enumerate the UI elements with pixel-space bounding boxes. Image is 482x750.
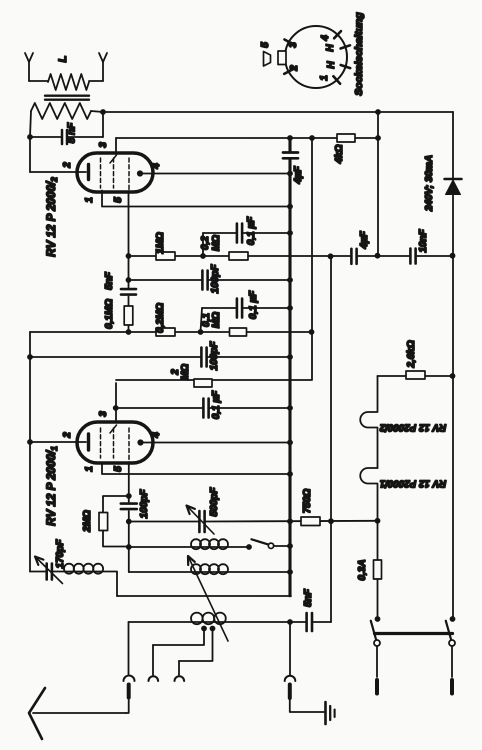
capacitor C 10nF	[410, 249, 415, 264]
mains pin right	[451, 646, 453, 694]
label 0,1 uF b	[248, 290, 259, 319]
label 100pF cath	[139, 489, 150, 519]
node y522 x331	[328, 518, 334, 524]
tube V2 grid (dashed)	[100, 428, 102, 458]
switch S1 contact	[246, 544, 252, 550]
wire terminal-left to primary	[29, 80, 48, 82]
tube V1 grid 3 (dashed)	[128, 158, 130, 191]
node x30 y357	[27, 354, 33, 360]
node lineA x128	[126, 253, 132, 259]
svg-text:RV 12 P 2000/1: RV 12 P 2000/1	[45, 446, 59, 526]
tuning arrow (coils)	[188, 556, 228, 641]
svg-text:Sockelschaltung: Sockelschaltung	[353, 12, 365, 96]
wire V2 pin1 cathode line	[102, 463, 290, 475]
wire bus corner y596	[117, 595, 291, 597]
svg-text:2: 2	[289, 65, 300, 72]
wire grid lead tube1 (node to pin2)	[30, 137, 86, 172]
node y138 x312	[309, 135, 315, 141]
wire grid line B y332	[30, 331, 312, 333]
label 500pF	[209, 487, 220, 517]
wire S1 to bus	[274, 545, 290, 547]
wire grid line A y256	[129, 255, 453, 257]
capacitor C 5nF grid-leak	[121, 289, 136, 295]
svg-text:170pF: 170pF	[55, 539, 66, 569]
mains pin left	[376, 646, 378, 694]
svg-text:RV 12 P 2000/2: RV 12 P 2000/2	[45, 177, 59, 257]
label tube V2 RV 12 P 2000/1	[45, 446, 59, 526]
wire v x378 top	[377, 112, 379, 256]
coil L1 (antenna tuning)	[52, 564, 117, 574]
svg-text:5nF: 5nF	[104, 271, 115, 290]
label pin 2 (V1)	[62, 162, 73, 169]
node 100pF-b bus	[287, 354, 293, 360]
node y622 bus	[287, 619, 293, 625]
label tube V1 RV 12 P 2000/2	[45, 177, 59, 257]
plug P3 socket	[175, 661, 185, 681]
resistor R 2M grid2	[194, 379, 212, 387]
node anode V1 bus	[287, 171, 293, 177]
node pin5 y547	[126, 544, 132, 550]
svg-text:RV 12 P2000/1: RV 12 P2000/1	[380, 478, 446, 489]
label heater 2	[379, 422, 446, 433]
svg-text:L: L	[57, 55, 69, 62]
label pin 4 (V1)	[151, 163, 162, 170]
label 2 MOhm grid2	[170, 364, 191, 380]
svg-text:5: 5	[113, 197, 124, 203]
heater V1 (RV12 P2000/2)	[360, 376, 377, 468]
svg-text:1MΩ: 1MΩ	[155, 232, 166, 254]
label socket 1	[319, 75, 330, 81]
resistor R 0.1M c	[230, 328, 247, 336]
label 170pF	[55, 539, 66, 569]
wire line y522	[129, 520, 378, 523]
switch S2a contact	[375, 616, 381, 622]
socket diagram circle	[285, 26, 347, 88]
svg-text:3: 3	[288, 42, 299, 48]
wire terminal-right to primary	[89, 80, 103, 82]
svg-text:0,1 µF: 0,1 µF	[211, 390, 222, 419]
wire HT rail x453	[452, 112, 454, 619]
tube V1 anode dot	[137, 170, 143, 176]
label 1M	[155, 232, 166, 254]
wire anode V2 to bus	[144, 442, 291, 444]
wire v x331	[330, 256, 332, 622]
label 240V 30mA	[424, 155, 435, 212]
wire secondary right lead	[91, 111, 103, 112]
antenna symbol	[29, 688, 126, 739]
coil L4 (aerial taps)	[129, 613, 306, 625]
wire x30 to 170pF	[30, 571, 45, 573]
wire HT top line y112	[103, 111, 453, 113]
bus wire x290 (chassis)	[288, 138, 291, 596]
capacitor C 100pF cath	[121, 504, 137, 510]
node 0.1uF-a bus	[287, 230, 293, 236]
switch S1 pivot	[268, 543, 273, 548]
socket pin5 speaker symbol	[264, 52, 271, 67]
node L4 tap2	[210, 626, 216, 632]
wire v x103 (secondary to 5nF)	[102, 112, 104, 137]
label pin 3 (V1)	[98, 142, 109, 148]
node lineB x312	[309, 329, 315, 335]
diode rectifier 240V 30mA	[445, 179, 462, 195]
label socket H upper	[325, 44, 336, 52]
node pin5 y496	[126, 493, 132, 499]
label pin 1 (V1)	[84, 197, 95, 203]
node L3 bus	[287, 569, 293, 575]
svg-text:1: 1	[319, 75, 330, 81]
svg-text:10nF: 10nF	[418, 228, 429, 252]
wire 2M leg	[103, 496, 129, 513]
resistor R 0.1M vert	[124, 306, 133, 325]
label 10nF	[418, 228, 429, 252]
svg-text:5 nF: 5 nF	[67, 122, 78, 143]
resistor R 2.6k	[406, 371, 425, 379]
label 2,6k	[406, 340, 417, 368]
tube V1 grid (dashed)	[100, 158, 102, 188]
svg-text:0,1 µF: 0,1 µF	[248, 290, 259, 319]
node lineB x200	[198, 329, 204, 335]
node lineA x452	[450, 253, 456, 259]
svg-text:H: H	[325, 44, 336, 52]
label 100pF a	[210, 264, 221, 294]
coil L2 (feedback)	[129, 539, 249, 549]
svg-text:100pF: 100pF	[209, 341, 220, 371]
label 0,3A	[357, 559, 368, 580]
tube V2 grid 3 (dashed)	[128, 428, 130, 462]
label 0,1 uF c	[211, 390, 222, 419]
svg-text:2: 2	[62, 432, 73, 439]
svg-text:500pF: 500pF	[209, 487, 220, 517]
switch S1 lever	[252, 539, 270, 545]
label 4uF b	[359, 230, 370, 249]
svg-text:100pF: 100pF	[139, 489, 150, 519]
node lineB x128	[126, 329, 132, 335]
svg-text:2,6kΩ: 2,6kΩ	[406, 340, 417, 368]
label 0,1 MOhm c	[201, 312, 222, 328]
svg-text:0,2: 0,2	[200, 236, 211, 250]
label 0,1M vert	[104, 299, 115, 329]
node y522 x377	[375, 518, 381, 524]
capacitor C 100pF a	[129, 271, 291, 290]
wire grid lead tube2	[30, 441, 86, 443]
tube V1 grid 2 (dashed)	[110, 155, 117, 188]
label L (antenna coil)	[57, 55, 69, 62]
label pin 1 (V2)	[84, 466, 95, 472]
label socket 3	[288, 42, 299, 48]
transformer primary winding	[48, 74, 89, 90]
capacitor C 100pF b	[30, 348, 290, 367]
tube V2 anode dot	[137, 439, 143, 445]
wire fuse to switch	[377, 579, 379, 619]
svg-text:240V; 30mA: 240V; 30mA	[424, 155, 435, 212]
label pin 4 (V2)	[151, 432, 162, 439]
heater V2 (RV12 P2000/1)	[360, 468, 377, 521]
wire V2 pin5 down	[128, 462, 130, 547]
svg-text:0,1MΩ: 0,1MΩ	[104, 299, 115, 329]
wire screen line y138	[116, 137, 378, 139]
node L4 tap1	[201, 626, 207, 632]
wire anode V1 to bus	[143, 173, 290, 175]
node 100pF-a bus	[287, 277, 293, 283]
capacitor C 4uF b	[351, 249, 356, 264]
capacitor C 0.1uF b	[202, 299, 290, 318]
wire riser x202 (lineB to 0.1uF)	[201, 308, 203, 332]
label pin 3 (V2)	[98, 411, 109, 417]
label pin 5 (V1)	[113, 197, 124, 203]
node anode V2 bus	[287, 440, 293, 446]
capacitor C 5nF out	[307, 613, 331, 631]
label socket 4	[320, 35, 331, 42]
wire V1 pin3 riser	[115, 138, 117, 154]
ground symbol	[326, 702, 335, 724]
label Sockelschaltung	[353, 12, 365, 96]
svg-text:H: H	[326, 61, 337, 69]
node S1 bus	[287, 543, 293, 549]
resistor R 0.2M a	[229, 252, 248, 260]
wire heater to fuse	[377, 521, 379, 560]
plug P2 socket	[149, 645, 159, 681]
label 2M cath	[82, 510, 93, 533]
switch S2b lever	[446, 621, 451, 640]
wire secondary left lead	[30, 111, 31, 137]
node pin1 V1 bus	[287, 204, 293, 210]
svg-text:4µF: 4µF	[359, 230, 370, 249]
tube V2 cathode bar	[87, 434, 90, 450]
label socket 2	[289, 65, 300, 72]
label socket 5	[260, 42, 271, 48]
resistor R 4k	[337, 134, 355, 142]
wire V1 pin5 down	[128, 191, 130, 332]
node y138 bus	[287, 135, 293, 141]
wire V2 pin3 riser	[115, 383, 117, 422]
coil L3 (feedback b)	[129, 564, 290, 574]
node y522 bus	[287, 518, 293, 524]
switch S2a lever	[371, 621, 376, 640]
label 5nF out	[303, 588, 314, 607]
plug P1 (antenna socket)	[124, 622, 135, 713]
node x30 y442	[0, 0, 1, 1]
svg-text:100pF: 100pF	[210, 264, 221, 294]
svg-text:5: 5	[260, 42, 271, 48]
svg-text:750Ω: 750Ω	[302, 489, 313, 514]
antenna terminal right	[99, 53, 107, 81]
tube V2 RV12P2000 envelope	[77, 422, 153, 463]
plug P4 (earth)	[285, 622, 324, 712]
antenna terminal left	[25, 53, 33, 81]
svg-text:MΩ: MΩ	[180, 364, 191, 380]
resistor R 1M	[156, 252, 175, 260]
svg-text:MΩ: MΩ	[211, 312, 222, 328]
node y138 x378	[375, 135, 381, 141]
transformer core	[45, 96, 89, 100]
svg-text:4: 4	[320, 35, 331, 42]
svg-text:5: 5	[113, 466, 124, 472]
transformer secondary winding	[31, 103, 91, 119]
svg-text:4: 4	[151, 163, 162, 170]
svg-text:4kΩ: 4kΩ	[334, 144, 345, 164]
capacitor C 500pF variable	[187, 506, 215, 535]
svg-text:1: 1	[84, 466, 95, 472]
node 0.1uF-b bus	[287, 305, 293, 311]
node pin5 y521	[126, 519, 132, 525]
label 0,1 uF a	[246, 216, 257, 245]
capacitor C 4uF (bus)	[283, 153, 298, 159]
resistor R 0.2M b	[156, 328, 175, 336]
socket key notch	[278, 51, 286, 65]
svg-text:1: 1	[84, 197, 95, 203]
label 750	[302, 489, 313, 514]
capacitor C 0.1uF c	[116, 399, 290, 418]
wire 2M bottom	[103, 531, 129, 547]
node 0.1uF-c bus	[287, 405, 293, 411]
capacitor C 0.1uF a	[203, 224, 290, 243]
label socket H lower	[326, 61, 337, 69]
svg-text:0,1 µF: 0,1 µF	[246, 216, 257, 245]
capacitor C 170pF variable	[35, 557, 63, 584]
svg-text:0,2MΩ: 0,2MΩ	[155, 303, 166, 333]
node grid V2 x30	[27, 439, 33, 445]
node lineA x377	[375, 253, 381, 259]
label 0,2 MOhm a	[200, 235, 222, 251]
svg-text:RV 12 P2000/2: RV 12 P2000/2	[379, 422, 446, 433]
node secondary-right / HT line	[100, 109, 106, 115]
label 4k	[334, 144, 345, 164]
tube V2 grid 2 (dashed)	[110, 425, 117, 458]
wire V1 pin1 to bus	[102, 191, 290, 207]
switch S2b contact	[450, 616, 456, 622]
node lineA x330	[328, 253, 334, 259]
wire x128 y547-572	[128, 547, 130, 572]
label 4uF bus	[293, 165, 304, 184]
fuse 0.3A	[374, 560, 382, 579]
node pin3 V2	[113, 405, 119, 411]
wire riser x203 (lineA to 0.1uF)	[202, 233, 204, 256]
label heater 1	[380, 478, 446, 489]
svg-text:2: 2	[62, 162, 73, 169]
svg-text:3: 3	[98, 142, 109, 148]
svg-text:4µF: 4µF	[293, 165, 304, 184]
socket pin ticks	[284, 31, 350, 84]
tube V1 RV12P2000 envelope	[77, 153, 153, 192]
wire left vertical x30	[29, 332, 31, 572]
svg-text:2MΩ: 2MΩ	[82, 510, 93, 533]
svg-text:MΩ: MΩ	[211, 235, 222, 251]
resistor R 2M cath	[99, 513, 108, 531]
wire corner x117	[116, 572, 118, 596]
label pin 2 (V2)	[62, 432, 73, 439]
node x378 y112	[375, 109, 381, 115]
svg-text:4: 4	[151, 432, 162, 439]
node secondary-left / 5nF	[27, 134, 33, 140]
node lineA x203	[200, 253, 206, 259]
svg-text:5nF: 5nF	[303, 588, 314, 607]
svg-text:3: 3	[98, 411, 109, 417]
wire v x312	[116, 138, 312, 380]
node pin1 V2 bus	[287, 471, 293, 477]
svg-text:0,3A: 0,3A	[357, 559, 368, 580]
tube V1 cathode bar	[87, 165, 90, 180]
switch S2b pivot	[449, 640, 455, 646]
switch S2a pivot	[374, 640, 380, 646]
switch coupling bar	[375, 632, 453, 635]
resistor R 750	[301, 517, 320, 526]
node 2.6k HT	[450, 373, 456, 379]
capacitor C 5nF (antenna)	[30, 130, 103, 144]
label pin 5 (V2)	[113, 466, 124, 472]
label 5 nF	[67, 122, 78, 143]
node x128 y280	[126, 277, 132, 283]
wire P2 to tap1	[153, 629, 204, 646]
label 100pF b	[209, 341, 220, 371]
wire P3 to tap2	[179, 629, 213, 662]
label 5nF grid-leak	[104, 271, 115, 290]
label 0,2M b	[155, 303, 166, 333]
wire 2.6k line	[378, 375, 453, 377]
